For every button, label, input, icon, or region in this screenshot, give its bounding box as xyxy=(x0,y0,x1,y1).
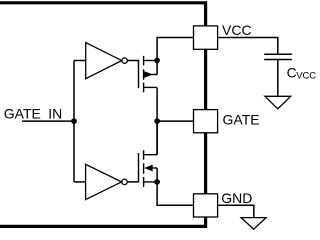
wire Q2 source to GND pin xyxy=(157,182,193,205)
capacitor CVCC xyxy=(264,54,292,59)
Q2 body arrow (points left, N-channel) xyxy=(144,165,153,172)
wire output node to GATE pin xyxy=(157,120,193,122)
ground symbol (GND pin) xyxy=(241,218,266,230)
svg-text:GATE: GATE xyxy=(223,112,260,128)
wire output rail Q1 drain to Q2 drain xyxy=(156,87,158,154)
svg-text:GND: GND xyxy=(221,190,252,206)
pin box GND xyxy=(194,194,218,217)
wire U1 output to Q1 gate xyxy=(127,60,139,62)
ground symbol (capacitor) xyxy=(265,96,291,109)
node input junction xyxy=(71,118,77,124)
inverter U1 (top) xyxy=(86,43,128,79)
svg-text:GATEIN: GATEIN xyxy=(4,105,62,121)
node output junction xyxy=(154,118,160,124)
transistor Q2 (N-channel, bottom) xyxy=(139,150,158,187)
device boundary frame right rail between GATE and GND pins xyxy=(204,133,207,194)
pin box GATE xyxy=(194,110,218,133)
wire bottom inverter input xyxy=(74,181,86,183)
wire Q2 drain up to output rail xyxy=(156,121,158,155)
device boundary frame (right-bottom segment and bottom edge) xyxy=(0,217,207,226)
device boundary frame right rail between VCC and GATE pins xyxy=(204,49,207,109)
wire Q2 body down to source xyxy=(156,168,158,182)
wire GATE IN input xyxy=(22,120,74,122)
svg-text:VCC: VCC xyxy=(222,22,252,38)
wire top inverter input xyxy=(74,60,86,62)
wire U2 output to Q2 gate xyxy=(127,181,139,183)
node Q1 source junction xyxy=(154,58,160,64)
transistor Q1 (P-channel, top) xyxy=(139,56,158,93)
wire capacitor to ground xyxy=(277,60,279,97)
pin box VCC xyxy=(194,26,218,49)
svg-text:VCC: VCC xyxy=(296,69,316,80)
wire vertical input bus to both inverters xyxy=(73,61,75,182)
inverter U2 (bottom) xyxy=(86,164,128,199)
device boundary frame (top edge and right-top segment) xyxy=(0,1,206,26)
wire GND pin to ground xyxy=(218,205,254,217)
wire Q1 source/body rail up to VCC xyxy=(157,38,193,75)
wire VCC pin to capacitor xyxy=(218,38,278,55)
Q1 body arrow (points right, P-channel) xyxy=(144,71,153,78)
node Q2 source junction xyxy=(154,179,160,185)
